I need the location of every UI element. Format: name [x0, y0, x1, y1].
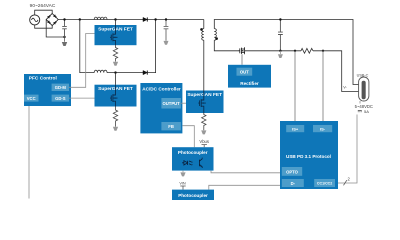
svg-text:SuperGAN FET: SuperGAN FET — [187, 92, 222, 98]
svg-text:GD-S: GD-S — [55, 96, 66, 101]
ground R4 arrow — [201, 130, 206, 134]
wire Q2 drain — [115, 73, 117, 85]
svg-text:CC1/CC2: CC1/CC2 — [317, 182, 332, 186]
node phase2 feed — [79, 18, 81, 20]
svg-text:IS+: IS+ — [292, 126, 299, 131]
svg-text:IS-: IS- — [320, 126, 326, 131]
block U7 Photocoupler — [172, 147, 214, 170]
capacitor C2 bulk — [164, 20, 169, 41]
node phase merge — [154, 18, 156, 20]
wire Q4 gate — [241, 54, 243, 65]
wire AC bottom bracket — [35, 25, 53, 28]
wire OUTPUT to U5 gate — [181, 102, 186, 104]
svg-text:Rectifier: Rectifier — [240, 81, 259, 86]
svg-text:Vbus: Vbus — [199, 139, 209, 144]
wire V- — [313, 51, 359, 92]
svg-text:V-: V- — [343, 86, 347, 90]
resistor R1 — [113, 45, 117, 61]
transistor Q4 sync FET — [238, 47, 245, 54]
ground primary GND1 — [64, 37, 66, 42]
inductor L1 — [94, 17, 107, 19]
svg-text:Photocoupler: Photocoupler — [178, 193, 208, 198]
svg-text:GD-M: GD-M — [55, 85, 67, 90]
diode D1 — [143, 17, 147, 21]
block U9 USB PD 3.1 Protocol — [280, 121, 338, 189]
wire OPTO — [211, 171, 282, 173]
node Q1 drain — [114, 18, 116, 20]
ground R2 arrow — [113, 127, 118, 131]
wire VCC down — [28, 106, 30, 199]
block U5 SuperGAN FET (flyback) — [186, 91, 224, 114]
svg-text:D-: D- — [291, 181, 296, 186]
block U6 AC/DC Controller — [140, 83, 182, 133]
node C1 top — [63, 18, 65, 20]
node C2 top — [165, 18, 167, 20]
svg-text:Photocoupler: Photocoupler — [178, 150, 208, 155]
inductor L2 — [94, 70, 107, 72]
svg-text:OUT: OUT — [240, 70, 249, 75]
wire CC1/CC2 to USB-C — [338, 115, 357, 184]
svg-text:OUTPUT: OUTPUT — [162, 101, 180, 106]
wire IS+ sense — [294, 51, 296, 121]
svg-text:2: 2 — [348, 177, 351, 182]
block U8 Photocoupler 2 — [172, 190, 214, 200]
svg-text:90~264VAC: 90~264VAC — [30, 3, 56, 9]
resistor R3 shunt — [301, 48, 313, 53]
ground bulk GND2 — [164, 41, 169, 45]
block U2 SuperGAN FET (phase 2) — [95, 85, 137, 107]
svg-text:5A: 5A — [364, 109, 369, 114]
AC source V1 — [30, 15, 40, 25]
node T1 secondary polarity dot — [215, 37, 218, 40]
svg-text:VCC: VCC — [27, 96, 36, 101]
bus slash 2 — [344, 180, 347, 185]
wire AC top bracket — [35, 10, 53, 15]
wire GD-S to Q2 gate — [69, 97, 95, 99]
block U4 Rectifier — [228, 65, 271, 88]
wire Q1 drain — [115, 20, 117, 26]
transformer T1 primary — [203, 20, 205, 29]
node C3 bottom — [279, 50, 281, 52]
wire phase2 feed drop — [80, 20, 94, 73]
node bulk input junction — [63, 36, 65, 38]
svg-text:FB: FB — [168, 124, 174, 129]
capacitor C3 output — [278, 20, 283, 51]
svg-text:PFC Control: PFC Control — [29, 76, 57, 82]
svg-text:USB PD 3.1 Protocol: USB PD 3.1 Protocol — [286, 154, 331, 159]
block U1 SuperGAN FET (phase 1) — [95, 25, 137, 45]
node IS- — [322, 50, 324, 52]
wire bridge DC- down to gnd rail — [46, 20, 64, 38]
wire secondary bottom rail — [245, 50, 301, 52]
wire phase2 rail — [107, 72, 143, 74]
wire FB to photocoupler — [182, 126, 194, 148]
ground R1 arrow — [113, 62, 118, 66]
diode D2 — [143, 71, 147, 75]
resistor R2 — [113, 107, 117, 127]
svg-text:AC/DC Controller: AC/DC Controller — [142, 87, 181, 92]
bridge rectifier BR1 — [46, 14, 58, 26]
svg-text:OPTO: OPTO — [286, 169, 299, 174]
resistor R4 — [202, 113, 206, 130]
wire phase2 diode out up to rail — [147, 20, 155, 73]
label DC 5A — [358, 110, 362, 111]
wire top rail (phase 1) — [58, 19, 204, 21]
ground secondary — [279, 51, 281, 54]
node T1 primary polarity dot — [200, 28, 203, 31]
svg-text:VIN: VIN — [179, 181, 186, 185]
capacitor C1 — [62, 20, 67, 38]
transformer T1 secondary — [214, 20, 358, 85]
wire IS- sense — [322, 51, 324, 121]
node IS+ — [294, 50, 296, 52]
node phase2 rail / Q2 drain — [114, 71, 116, 73]
ground U7 arrow — [182, 171, 184, 173]
node C3 top — [279, 18, 281, 20]
wire D- — [209, 185, 282, 189]
wire GD-M to Q1 gate — [69, 34, 95, 88]
wire secondary bottom — [214, 40, 238, 51]
block U3 PFC Control — [24, 74, 71, 106]
